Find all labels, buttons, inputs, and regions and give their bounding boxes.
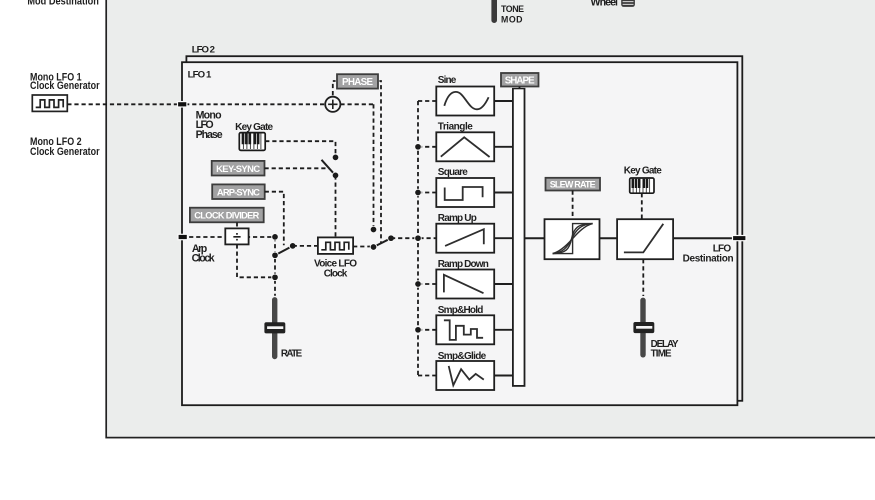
wire voice clock to switch C (353, 246, 373, 248)
svg-text:Clock: Clock (324, 268, 348, 279)
ramp down wave box (436, 270, 494, 299)
svg-text:CLOCK DIVIDER: CLOCK DIVIDER (194, 211, 259, 221)
svg-text:Wheel: Wheel (591, 0, 619, 9)
wire junction down to rate slider (274, 237, 276, 296)
wire arp-sync down to switch B (265, 192, 284, 246)
switch B pole node (289, 243, 296, 250)
svg-text:Clock: Clock (192, 253, 215, 265)
key gate keyboard icon 2 (630, 178, 654, 193)
svg-text:RATE: RATE (281, 348, 303, 359)
PHASE badge (336, 73, 380, 90)
switch B throw node (272, 252, 279, 259)
svg-text:Mod Destination: Mod Destination (27, 0, 99, 8)
svg-text:TIME: TIME (651, 348, 672, 359)
junction node rate line (272, 274, 279, 281)
port square lfo destination (733, 236, 747, 241)
svg-text:÷: ÷ (233, 230, 241, 246)
wire clock divider badge to divider box (236, 222, 238, 228)
wire arp clock port to junction (182, 236, 275, 238)
wire switch A to voice clock box (335, 175, 337, 237)
switch A node top (332, 154, 339, 161)
svg-text:Ramp Up: Ramp Up (438, 213, 477, 224)
CLOCK DIVIDER badge (189, 206, 266, 223)
solid wire slew to sat box (600, 237, 618, 239)
triangle wave box (436, 132, 494, 161)
switch A node bottom (332, 172, 339, 179)
svg-text:Key Gate: Key Gate (624, 165, 662, 176)
svg-text:Triangle: Triangle (438, 121, 473, 132)
wire sat box down to delay slider (642, 259, 644, 296)
svg-text:Destination: Destination (683, 254, 734, 265)
solid connector ramp up to bar (494, 237, 513, 239)
wire stub ramp down (418, 283, 436, 285)
wire divider bottom to rate line (237, 244, 275, 277)
svg-text:SLEW RATE: SLEW RATE (550, 180, 596, 190)
junction node arp line (272, 234, 279, 241)
svg-text:MOD: MOD (501, 14, 523, 24)
DELAY TIME slider (633, 298, 654, 358)
switch A lever (322, 160, 336, 176)
wire mono lfo phase (port to sum node to corner) (178, 103, 325, 105)
svg-text:Phase: Phase (196, 129, 223, 141)
sine wave box (436, 87, 494, 116)
RATE slider (264, 297, 285, 359)
wire switch B to voice clock box (293, 245, 318, 247)
port square mono lfo phase (178, 102, 187, 107)
TONE MOD slider (491, 0, 497, 23)
junction node ramp down (415, 281, 422, 288)
smp glide wave box (436, 361, 494, 390)
svg-text:Clock Generator: Clock Generator (30, 80, 100, 92)
divider box (225, 228, 248, 245)
wire phase badge right side down (378, 81, 381, 243)
wire phase badge left to sum node (333, 81, 337, 97)
ramp up wave box (436, 224, 494, 253)
LFO 1 box (182, 62, 737, 405)
junction node square (415, 189, 422, 196)
SLEW RATE badge (544, 176, 601, 192)
svg-text:Clock Generator: Clock Generator (30, 146, 100, 158)
SHAPE badge (500, 72, 540, 88)
wire stub triangle (418, 146, 436, 148)
svg-text:TONE: TONE (501, 4, 524, 14)
svg-text:Ramp Down: Ramp Down (438, 259, 489, 270)
slew rate box (545, 219, 600, 259)
solid connector sine to bar (494, 100, 513, 102)
svg-text:Sine: Sine (438, 75, 457, 86)
solid connector triangle to bar (494, 146, 513, 148)
KEY-SYNC badge (210, 160, 266, 177)
wire stub smp glide (418, 375, 436, 377)
ARP-SYNC badge (211, 183, 266, 200)
svg-text:KEY-SYNC: KEY-SYNC (216, 163, 260, 174)
voice lfo clock box (318, 237, 353, 254)
solid connector square to bar (494, 192, 513, 194)
wire shape badge to bar (519, 87, 521, 89)
LFO 2 box (186, 56, 742, 401)
wire clock generator to LFO1 port (67, 103, 178, 105)
solid wire sat box to lfo destination port (673, 237, 733, 239)
solid connector smp hold to bar (494, 329, 513, 331)
wire vertical from phase line down (373, 104, 375, 228)
solid connector ramp down to bar (494, 283, 513, 285)
wire slew rate badge to slew box (572, 191, 574, 220)
saturation box (617, 219, 673, 259)
wire stub square (418, 192, 436, 194)
wire switch C to waveform bus (391, 237, 436, 239)
switch C lever (374, 238, 392, 247)
switch B lever (275, 246, 293, 255)
junction node triangle (415, 144, 422, 151)
switch C out node (388, 235, 395, 242)
mono lfo clock generator box (32, 95, 67, 111)
key gate keyboard icon (239, 133, 265, 151)
wire key-sync to switch (265, 167, 330, 169)
wire key gate to switch (265, 141, 335, 154)
solid wire bar to slew box (525, 237, 545, 239)
svg-text:Square: Square (438, 167, 468, 178)
wire stub sine (418, 100, 436, 102)
svg-text:Key Gate: Key Gate (235, 122, 273, 133)
wire key gate 2 to sat box (641, 193, 643, 219)
switch C terminal node (from phase line) (370, 226, 377, 233)
svg-text:LFO 1: LFO 1 (188, 69, 212, 80)
wire waveform bus vertical (417, 101, 419, 376)
svg-text:LFO 2: LFO 2 (192, 45, 215, 56)
svg-text:SHAPE: SHAPE (505, 76, 535, 87)
junction node waveform bus (415, 235, 422, 242)
svg-text:ARP-SYNC: ARP-SYNC (217, 186, 260, 197)
wire stub smp hold (418, 329, 436, 331)
port square arp clock (178, 234, 187, 239)
outer mod-destination frame (106, 0, 875, 438)
smp hold wave box (436, 315, 494, 344)
svg-text:Smp&Hold: Smp&Hold (438, 305, 484, 316)
solid connector smp glide to bar (494, 375, 513, 377)
square wave box (436, 178, 494, 207)
svg-text:PHASE: PHASE (342, 77, 373, 88)
wave selector bar (513, 88, 525, 386)
sum node (325, 97, 340, 112)
switch C pole node (370, 244, 377, 251)
junction node smp hold (415, 327, 422, 334)
